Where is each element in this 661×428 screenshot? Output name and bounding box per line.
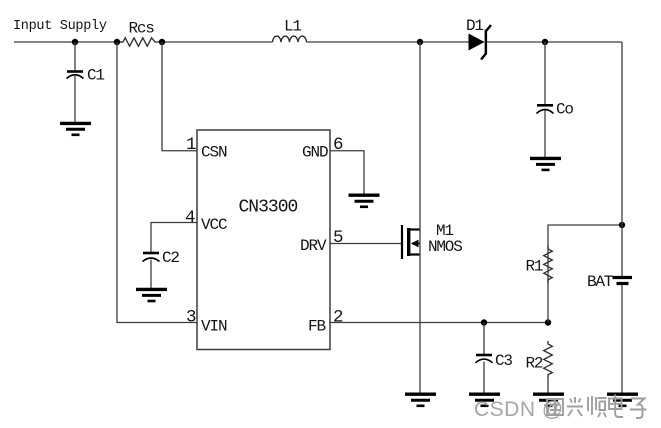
ground (Co) <box>530 158 561 170</box>
svg-text:R1: R1 <box>526 258 543 276</box>
wire R2 to ground <box>547 378 549 393</box>
svg-text:Input Supply: Input Supply <box>13 19 107 34</box>
ground (BAT) <box>607 394 638 406</box>
wire GND pin branch <box>330 151 364 194</box>
wire CSN riser <box>162 42 197 151</box>
wire C3 branch <box>483 323 485 355</box>
svg-text:4: 4 <box>185 208 195 228</box>
diode D1 (schottky) <box>469 25 492 60</box>
ground (C3) <box>469 394 500 406</box>
svg-text:Co: Co <box>556 101 573 119</box>
wire R1 top link <box>548 225 622 323</box>
node: output/Co junction <box>542 39 548 45</box>
svg-text:VCC: VCC <box>201 216 227 234</box>
node: C3 junction <box>481 319 487 325</box>
svg-text:GND: GND <box>302 144 328 162</box>
wire C2 to ground <box>150 260 152 290</box>
wire C1 branch <box>74 42 76 70</box>
capacitor Co <box>537 105 554 113</box>
svg-text:FB: FB <box>308 318 326 336</box>
wire top rail middle segment <box>162 41 273 43</box>
svg-text:CN3300: CN3300 <box>239 198 298 218</box>
svg-text:6: 6 <box>333 135 343 155</box>
wire FB row <box>330 322 548 324</box>
ground (R2) <box>533 394 564 406</box>
svg-text:2: 2 <box>333 308 343 328</box>
IC U1 CN3300 body <box>197 130 330 350</box>
ground (C1) <box>60 123 91 134</box>
capacitor C1 <box>67 72 84 79</box>
wire top rail right segment <box>487 41 622 43</box>
svg-text:3: 3 <box>186 308 196 328</box>
svg-text:D1: D1 <box>466 17 483 35</box>
wire top rail to diode <box>307 41 469 43</box>
wire C3 to ground <box>483 362 485 394</box>
svg-text:R2: R2 <box>526 355 543 373</box>
node: BAT/R1 junction <box>619 222 625 228</box>
resistor Rcs <box>117 38 162 46</box>
resistor R1 <box>544 246 553 283</box>
svg-text:1: 1 <box>186 135 196 155</box>
node: Rcs right junction <box>159 39 165 45</box>
battery BAT <box>613 278 633 284</box>
svg-text:Rcs: Rcs <box>129 20 155 38</box>
transistor M1 NMOS <box>402 225 420 259</box>
wire drain/source vertical <box>419 42 421 393</box>
watermark chinese glyphs <box>547 395 647 419</box>
ground (M1 source) <box>405 394 436 406</box>
node: input/C1 junction <box>72 39 78 45</box>
svg-text:C1: C1 <box>87 67 104 85</box>
capacitor C2 <box>143 253 160 262</box>
svg-text:DRV: DRV <box>300 237 327 255</box>
wire DRV to gate <box>330 243 401 245</box>
inductor L1 <box>273 36 307 42</box>
wire VCC branch <box>151 223 197 253</box>
svg-text:C2: C2 <box>162 249 179 267</box>
ground (C2) <box>136 289 167 301</box>
capacitor C3 <box>476 355 493 363</box>
svg-text:L1: L1 <box>284 18 301 36</box>
svg-text:CSN: CSN <box>201 144 227 162</box>
resistor R2 <box>544 341 553 378</box>
svg-text:NMOS: NMOS <box>428 238 462 256</box>
wire Co branch <box>544 42 546 104</box>
wire BAT vertical top <box>621 42 623 276</box>
wire BAT to ground <box>621 285 623 393</box>
svg-text:BAT: BAT <box>587 273 613 291</box>
svg-text:VIN: VIN <box>201 318 227 336</box>
node: switch node junction <box>417 39 423 45</box>
node: Rcs left junction <box>114 39 120 45</box>
svg-text:5: 5 <box>333 228 343 248</box>
wire VIN riser (left vertical) <box>117 42 197 323</box>
wire Co to ground <box>544 111 546 158</box>
node: R1/R2 junction <box>545 319 551 325</box>
svg-text:C3: C3 <box>495 352 512 370</box>
wire top rail left segment <box>14 41 122 43</box>
wire C1 to ground <box>74 76 76 122</box>
ground (GND pin) <box>349 195 380 207</box>
